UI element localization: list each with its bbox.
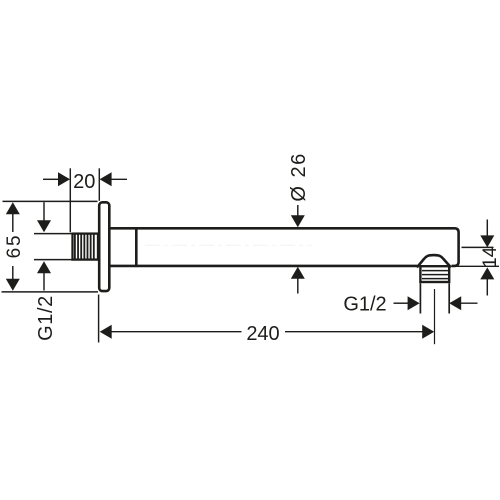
svg-text:14: 14 — [480, 246, 500, 268]
dimension 65 (flange diameter) — [2, 201, 99, 292]
dimension 240 (arm length) — [99, 295, 435, 343]
pipe joint line at flange hub — [135, 227, 138, 267]
svg-text:240: 240 — [246, 323, 279, 345]
dimension 14 (axis to outlet face) — [453, 220, 500, 296]
svg-text:65: 65 — [4, 234, 25, 259]
outlet dome transition — [417, 255, 451, 267]
svg-text:Ø 26: Ø 26 — [288, 152, 310, 201]
dimension 20 (flange depth) — [43, 168, 127, 232]
wall thread G1/2 (hatched nipple) — [73, 234, 99, 260]
pipe center line (faint) — [145, 244, 312, 246]
wall flange (escutcheon side view) — [99, 202, 109, 291]
outlet stub extension lines — [420, 283, 449, 313]
outlet thread G1/2 (hatched) — [420, 266, 449, 282]
svg-text:G1/2: G1/2 — [35, 295, 57, 341]
dimension G1/2 outlet thread — [394, 296, 478, 310]
svg-text:20: 20 — [73, 171, 95, 193]
dimension Ø26 (pipe diameter) — [291, 205, 305, 294]
svg-text:G1/2: G1/2 — [343, 294, 386, 316]
outlet center line — [434, 289, 436, 344]
shower arm pipe outline — [109, 228, 458, 266]
dimension G1/2 wall thread — [34, 202, 73, 290]
